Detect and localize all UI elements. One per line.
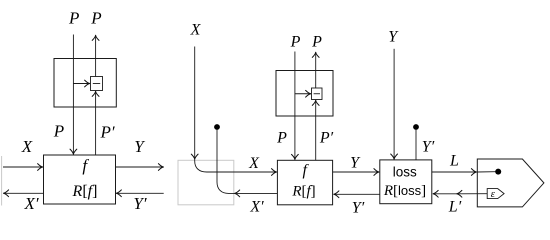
svg-text:Y′: Y′ <box>422 139 435 156</box>
cap pentagon (terminator) <box>477 159 544 207</box>
svg-text:f: f <box>302 162 309 179</box>
node: discard dot for X' (middle) <box>214 124 220 130</box>
wire Y' from loss back into R[f] <box>334 193 380 195</box>
svg-text:P′: P′ <box>319 130 334 147</box>
wire X' curve up to dot (middle) <box>217 129 235 193</box>
wire L from loss into cap <box>432 171 477 173</box>
wire X into f (left) <box>3 166 43 168</box>
svg-text:X′: X′ <box>23 194 38 213</box>
svg-text:Y: Y <box>134 137 145 156</box>
svg-text:X: X <box>190 22 202 39</box>
wire updated P up out of step square (middle) <box>315 52 317 88</box>
svg-text:R[f]: R[f] <box>72 183 98 200</box>
svg-text:Y: Y <box>350 155 361 172</box>
svg-text:P: P <box>90 9 101 28</box>
gradient-step square (left diagram) <box>91 77 103 91</box>
svg-text:R[loss]: R[loss] <box>383 183 426 199</box>
svg-text:f: f <box>82 156 89 175</box>
ghost box (middle diagram, previous stage) <box>178 160 234 205</box>
svg-text:L: L <box>449 153 459 170</box>
svg-text:Y′: Y′ <box>352 200 365 217</box>
wire tee from P into step square (left) <box>73 83 89 85</box>
svg-text:P′: P′ <box>99 123 114 142</box>
wire P down into f (left) <box>72 35 74 155</box>
svg-text:X: X <box>248 155 260 172</box>
wire Y out of f (left) <box>116 166 164 168</box>
wire L inside cap to discard dot <box>477 171 495 173</box>
wire X from top boundary (middle) <box>194 47 196 160</box>
wire P down into f (middle) <box>294 52 296 160</box>
wire tee from P into step square (middle) <box>295 93 311 95</box>
minus sign inside step square (middle) <box>314 93 320 95</box>
box f / R[f] (left diagram) <box>44 155 116 204</box>
wire X curve into f (middle) <box>195 160 277 173</box>
wire P' up from f into step square (middle) <box>315 100 317 160</box>
wire Y from f to loss <box>333 171 379 173</box>
gradient-step square (middle diagram) <box>312 88 323 100</box>
svg-text:L′: L′ <box>448 199 462 216</box>
update box (middle diagram) <box>276 71 333 117</box>
update box (left diagram) <box>54 59 116 108</box>
svg-text:R[f]: R[f] <box>291 184 315 200</box>
wire Y' into f (left) <box>116 192 163 194</box>
wire X' out of f (left) <box>4 192 44 194</box>
svg-text:X′: X′ <box>249 199 264 216</box>
wire L' from epsilon tag back to R[loss]: outer segment <box>433 193 457 195</box>
node: discard dot for Y' (right) <box>413 124 419 130</box>
epsilon seed tag <box>487 189 504 199</box>
wire X' out of R[f] toward discard dot (middle) <box>235 192 278 194</box>
svg-text:P: P <box>68 9 79 28</box>
svg-text:Y′: Y′ <box>133 194 146 213</box>
wire Y (target) from top into loss <box>393 49 395 159</box>
svg-text:P: P <box>290 34 301 51</box>
box f / R[f] (middle diagram) <box>277 160 332 205</box>
svg-text:Y: Y <box>388 29 399 46</box>
node: discard dot for L (inside cap) <box>495 169 501 175</box>
svg-text:P: P <box>53 121 64 140</box>
wire P' up from f into step square (left) <box>95 91 97 155</box>
ghost box edge, far left of left diagram <box>1 156 3 206</box>
wire updated P up out of step square (left) <box>95 35 97 76</box>
svg-text:P: P <box>276 130 287 147</box>
svg-text:loss: loss <box>393 164 417 179</box>
wire L' from epsilon tag: segment from tag <box>457 193 487 195</box>
svg-text:X: X <box>21 137 33 156</box>
minus sign inside step square (left) <box>93 83 100 85</box>
svg-text:P: P <box>311 34 322 51</box>
box loss / R[loss] <box>380 160 432 204</box>
wire Y' up from loss to discard dot <box>415 129 417 160</box>
